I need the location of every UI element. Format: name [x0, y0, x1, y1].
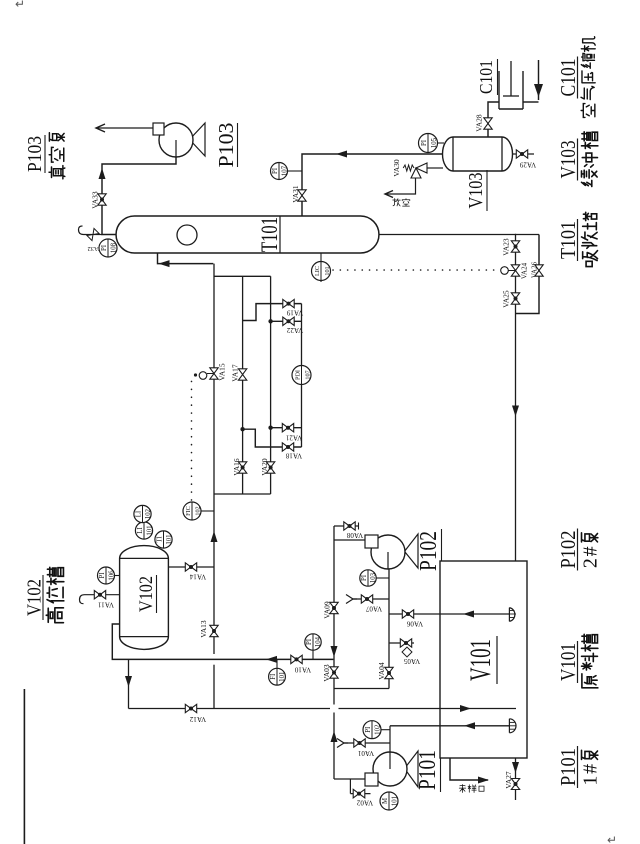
svg-text:FI: FI	[270, 673, 277, 680]
svg-text:VA02: VA02	[356, 799, 373, 807]
svg-text:VA15: VA15	[218, 363, 227, 381]
svg-text:PI: PI	[365, 726, 372, 733]
svg-text:VA03: VA03	[322, 664, 331, 682]
svg-text:VA11: VA11	[98, 601, 114, 609]
svg-text:VA29: VA29	[519, 161, 536, 169]
svg-text:V101: V101	[464, 639, 497, 681]
svg-text:T101: T101	[556, 221, 580, 259]
svg-text:C101: C101	[556, 59, 580, 97]
svg-text:VA05: VA05	[403, 657, 420, 665]
svg-text:P102: P102	[556, 531, 580, 569]
svg-text:2: 2	[580, 558, 602, 568]
svg-text:102: 102	[195, 506, 202, 515]
svg-text:V103: V103	[556, 141, 580, 179]
svg-text:LI: LI	[137, 527, 144, 534]
svg-text:P103: P103	[214, 123, 238, 168]
svg-text:101: 101	[279, 672, 286, 682]
svg-text:P102: P102	[416, 531, 442, 571]
svg-text:VA20: VA20	[260, 458, 269, 476]
svg-text:105: 105	[431, 137, 438, 148]
svg-text:VA31: VA31	[291, 185, 300, 203]
svg-text:PI: PI	[99, 572, 106, 579]
svg-text:P101: P101	[556, 748, 580, 786]
svg-text:VA18: VA18	[285, 452, 302, 460]
svg-text:VA27: VA27	[504, 771, 513, 789]
svg-text:1: 1	[580, 776, 602, 786]
svg-text:VA26: VA26	[531, 261, 539, 278]
svg-text:VA21: VA21	[285, 434, 302, 442]
svg-text:101: 101	[166, 534, 173, 544]
svg-text:103: 103	[370, 572, 377, 583]
svg-text:VA09: VA09	[323, 601, 332, 619]
svg-text:107: 107	[281, 165, 288, 176]
svg-text:TI: TI	[157, 536, 164, 543]
svg-text:PI: PI	[306, 638, 313, 645]
svg-text:LI: LI	[136, 510, 143, 517]
svg-text:VA04: VA04	[377, 662, 386, 680]
svg-text:108: 108	[111, 242, 118, 253]
svg-text:VA19: VA19	[286, 309, 303, 317]
svg-text:VA17: VA17	[231, 364, 240, 382]
svg-text:PI: PI	[361, 574, 368, 581]
svg-text:VA33: VA33	[91, 191, 100, 209]
svg-text:VA24: VA24	[521, 262, 529, 279]
svg-text:VA25: VA25	[502, 290, 511, 308]
svg-text:V102: V102	[136, 576, 157, 612]
svg-text:102: 102	[145, 508, 152, 519]
svg-text:VA22: VA22	[286, 326, 303, 334]
svg-text:C101: C101	[476, 60, 496, 94]
svg-text:VA13: VA13	[199, 620, 208, 638]
svg-text:P101: P101	[415, 750, 441, 790]
svg-text:PDI: PDI	[295, 370, 302, 380]
svg-text:VA06: VA06	[406, 620, 423, 628]
svg-text:P103: P103	[24, 136, 46, 172]
svg-text:VA28: VA28	[475, 114, 484, 132]
svg-text:T101: T101	[257, 217, 282, 252]
svg-text:101: 101	[392, 796, 399, 806]
svg-text:VA23: VA23	[502, 238, 511, 256]
svg-text:V101: V101	[556, 643, 580, 681]
svg-text:106: 106	[108, 570, 115, 581]
svg-text:#: #	[580, 764, 602, 774]
svg-text:102: 102	[375, 724, 382, 735]
svg-text:VA14: VA14	[189, 573, 206, 581]
svg-text:PI: PI	[101, 244, 108, 251]
svg-text:VA12: VA12	[189, 715, 206, 723]
svg-text:VA10: VA10	[294, 666, 311, 674]
svg-text:FIC: FIC	[185, 506, 192, 516]
svg-text:101: 101	[324, 266, 331, 275]
svg-text:V103: V103	[465, 173, 487, 209]
svg-text:M: M	[382, 798, 389, 804]
svg-text:#: #	[580, 546, 602, 556]
svg-text:V102: V102	[24, 579, 46, 616]
svg-text:VA30: VA30	[392, 159, 401, 177]
svg-text:VA07: VA07	[365, 605, 382, 613]
svg-text:PI: PI	[421, 139, 428, 146]
svg-text:107: 107	[305, 370, 312, 379]
svg-text:104: 104	[315, 636, 322, 647]
svg-text:LIC: LIC	[314, 266, 321, 276]
svg-text:101: 101	[146, 525, 153, 535]
svg-text:VA01: VA01	[357, 749, 374, 757]
svg-text:PI: PI	[272, 167, 279, 174]
svg-text:VA08: VA08	[346, 531, 363, 539]
svg-text:VA16: VA16	[232, 458, 241, 476]
